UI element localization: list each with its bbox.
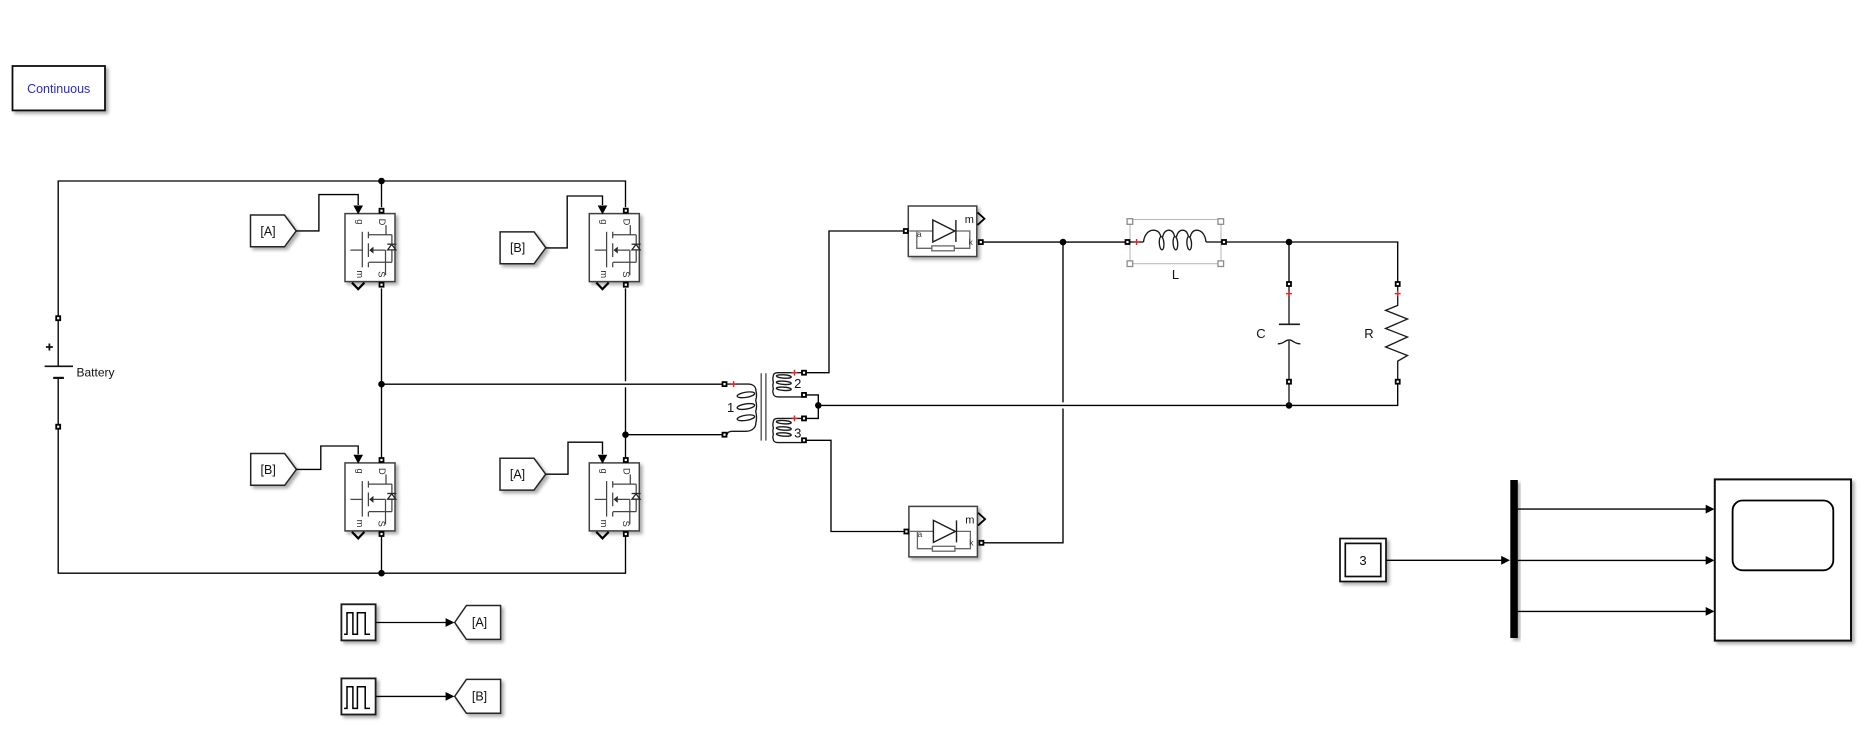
wire left leg to lower D bbox=[381, 384, 383, 457]
node right leg junction bbox=[622, 431, 629, 438]
pulse generator 1 bbox=[341, 604, 375, 640]
port winding1 - bbox=[723, 433, 727, 437]
capacitor C bbox=[1278, 286, 1301, 405]
transformer core bbox=[761, 373, 766, 440]
port R top bbox=[1396, 282, 1400, 286]
plus mark winding3 bbox=[792, 415, 798, 421]
wire pulse2 to goto B bbox=[376, 695, 446, 697]
transistor MOSFET Q2 upper-right bbox=[589, 206, 640, 290]
port R bottom bbox=[1396, 380, 1400, 384]
node top rail junction bbox=[378, 178, 385, 185]
wire [B]1 to Q2 gate bbox=[546, 196, 603, 248]
from tag [B] lower-left bbox=[251, 454, 297, 486]
svg-text:3: 3 bbox=[1359, 553, 1366, 568]
svg-text:C: C bbox=[1256, 326, 1265, 341]
wire demux out 2 bbox=[1518, 559, 1706, 561]
diode D1 upper bbox=[904, 206, 985, 257]
from tag [A] lower-right bbox=[500, 458, 546, 490]
wire demux out 3 bbox=[1518, 610, 1706, 612]
diode D2 lower bbox=[904, 506, 985, 557]
plus mark primary bbox=[731, 381, 737, 387]
wire output mid rail bbox=[818, 384, 1397, 405]
wire constant to demux bbox=[1386, 559, 1502, 561]
wire left leg upper S to mid junction bbox=[381, 288, 383, 384]
inductor L bbox=[1127, 219, 1224, 282]
from tag [A] upper-left bbox=[251, 215, 297, 247]
pulse generator 2 bbox=[341, 678, 375, 714]
wire L to C and R bbox=[1226, 242, 1397, 282]
svg-text:[A]: [A] bbox=[472, 616, 487, 630]
powergui block "Continuous" bbox=[13, 66, 106, 110]
svg-text:[A]: [A] bbox=[260, 224, 275, 238]
port D1 anode bbox=[904, 229, 908, 233]
wire D2 cathode up to node (gap at crossing) bbox=[984, 242, 1063, 543]
port L left bbox=[1126, 240, 1130, 244]
wire bottom rail bbox=[58, 378, 625, 573]
svg-text:2: 2 bbox=[794, 376, 801, 391]
node output top junction bbox=[1286, 239, 1293, 246]
node output mid junction at C bbox=[1286, 402, 1293, 409]
port winding3 + bbox=[802, 416, 806, 420]
plus mark winding2 bbox=[792, 370, 798, 376]
resistor R bbox=[1386, 286, 1408, 379]
port battery - bbox=[56, 425, 60, 429]
node diode output junction bbox=[1060, 239, 1067, 246]
port C top bbox=[1287, 282, 1291, 286]
node transformer center node bbox=[815, 402, 822, 409]
wire [B]2 to Q3 gate bbox=[296, 446, 358, 469]
port L right bbox=[1222, 240, 1226, 244]
transformer winding 2 bbox=[773, 373, 802, 397]
svg-text:Battery: Battery bbox=[77, 365, 115, 379]
plus mark L bbox=[1134, 239, 1140, 245]
wire winding2 top to diode D1 anode bbox=[806, 231, 903, 373]
goto tag [B] bbox=[455, 679, 501, 713]
port C bottom bbox=[1287, 380, 1291, 384]
node bottom rail junction bbox=[378, 570, 385, 577]
wire [A]1 to Q1 gate bbox=[296, 195, 358, 231]
wire right mid to transformer bottom bbox=[626, 434, 723, 436]
svg-text:Continuous: Continuous bbox=[27, 82, 90, 96]
wire winding3 bottom to diode D2 anode bbox=[806, 440, 904, 531]
demux bar bbox=[1510, 480, 1518, 638]
wire demux out 1 bbox=[1518, 508, 1706, 510]
port winding2 + bbox=[802, 371, 806, 375]
transistor MOSFET Q1 upper-left bbox=[345, 206, 396, 290]
node mid rail junction bbox=[378, 381, 385, 388]
svg-text:[B]: [B] bbox=[261, 463, 276, 477]
port winding2 - bbox=[802, 393, 806, 397]
scope bbox=[1715, 479, 1851, 640]
transistor MOSFET Q3 lower-left bbox=[345, 455, 396, 539]
wire right leg to lower-right D bbox=[625, 435, 627, 457]
transformer winding 3 bbox=[773, 418, 802, 442]
transistor MOSFET Q4 lower-right bbox=[589, 455, 640, 539]
port winding1 + bbox=[723, 382, 727, 386]
port D2 anode bbox=[904, 530, 908, 534]
wire top rail bbox=[58, 181, 625, 366]
from tag [B] upper-right bbox=[500, 232, 546, 264]
wire C top stub bbox=[1288, 242, 1290, 282]
wire mid rail to transformer primary bbox=[382, 383, 723, 385]
constant block 3 bbox=[1340, 539, 1386, 582]
transformer winding labels bbox=[727, 376, 801, 441]
svg-text:[A]: [A] bbox=[510, 468, 525, 482]
wire D1 cathode to L bbox=[983, 241, 1125, 243]
wire right leg upper S to junction (gap at crossing) bbox=[625, 288, 627, 434]
transformer primary winding 1 bbox=[725, 384, 757, 435]
wire upper-left D stub bbox=[381, 181, 383, 207]
battery Battery bbox=[45, 344, 115, 380]
port battery + bbox=[56, 316, 60, 320]
port winding3 - bbox=[802, 438, 806, 442]
wire lower-left S to bottom rail bbox=[381, 536, 383, 573]
plus mark C bbox=[1286, 291, 1292, 297]
svg-text:1: 1 bbox=[727, 400, 734, 415]
plus mark R bbox=[1395, 291, 1401, 297]
svg-text:L: L bbox=[1172, 267, 1179, 282]
svg-text:[B]: [B] bbox=[510, 241, 525, 255]
svg-text:R: R bbox=[1364, 326, 1373, 341]
svg-text:[B]: [B] bbox=[472, 690, 487, 704]
goto tag [A] bbox=[455, 606, 501, 640]
wire [A]2 to Q4 gate bbox=[546, 442, 603, 474]
wire winding3 top to center node bbox=[806, 405, 818, 418]
svg-text:3: 3 bbox=[794, 426, 801, 441]
wire pulse1 to goto A bbox=[376, 622, 446, 624]
wire winding2 bottom to center node bbox=[806, 395, 818, 406]
